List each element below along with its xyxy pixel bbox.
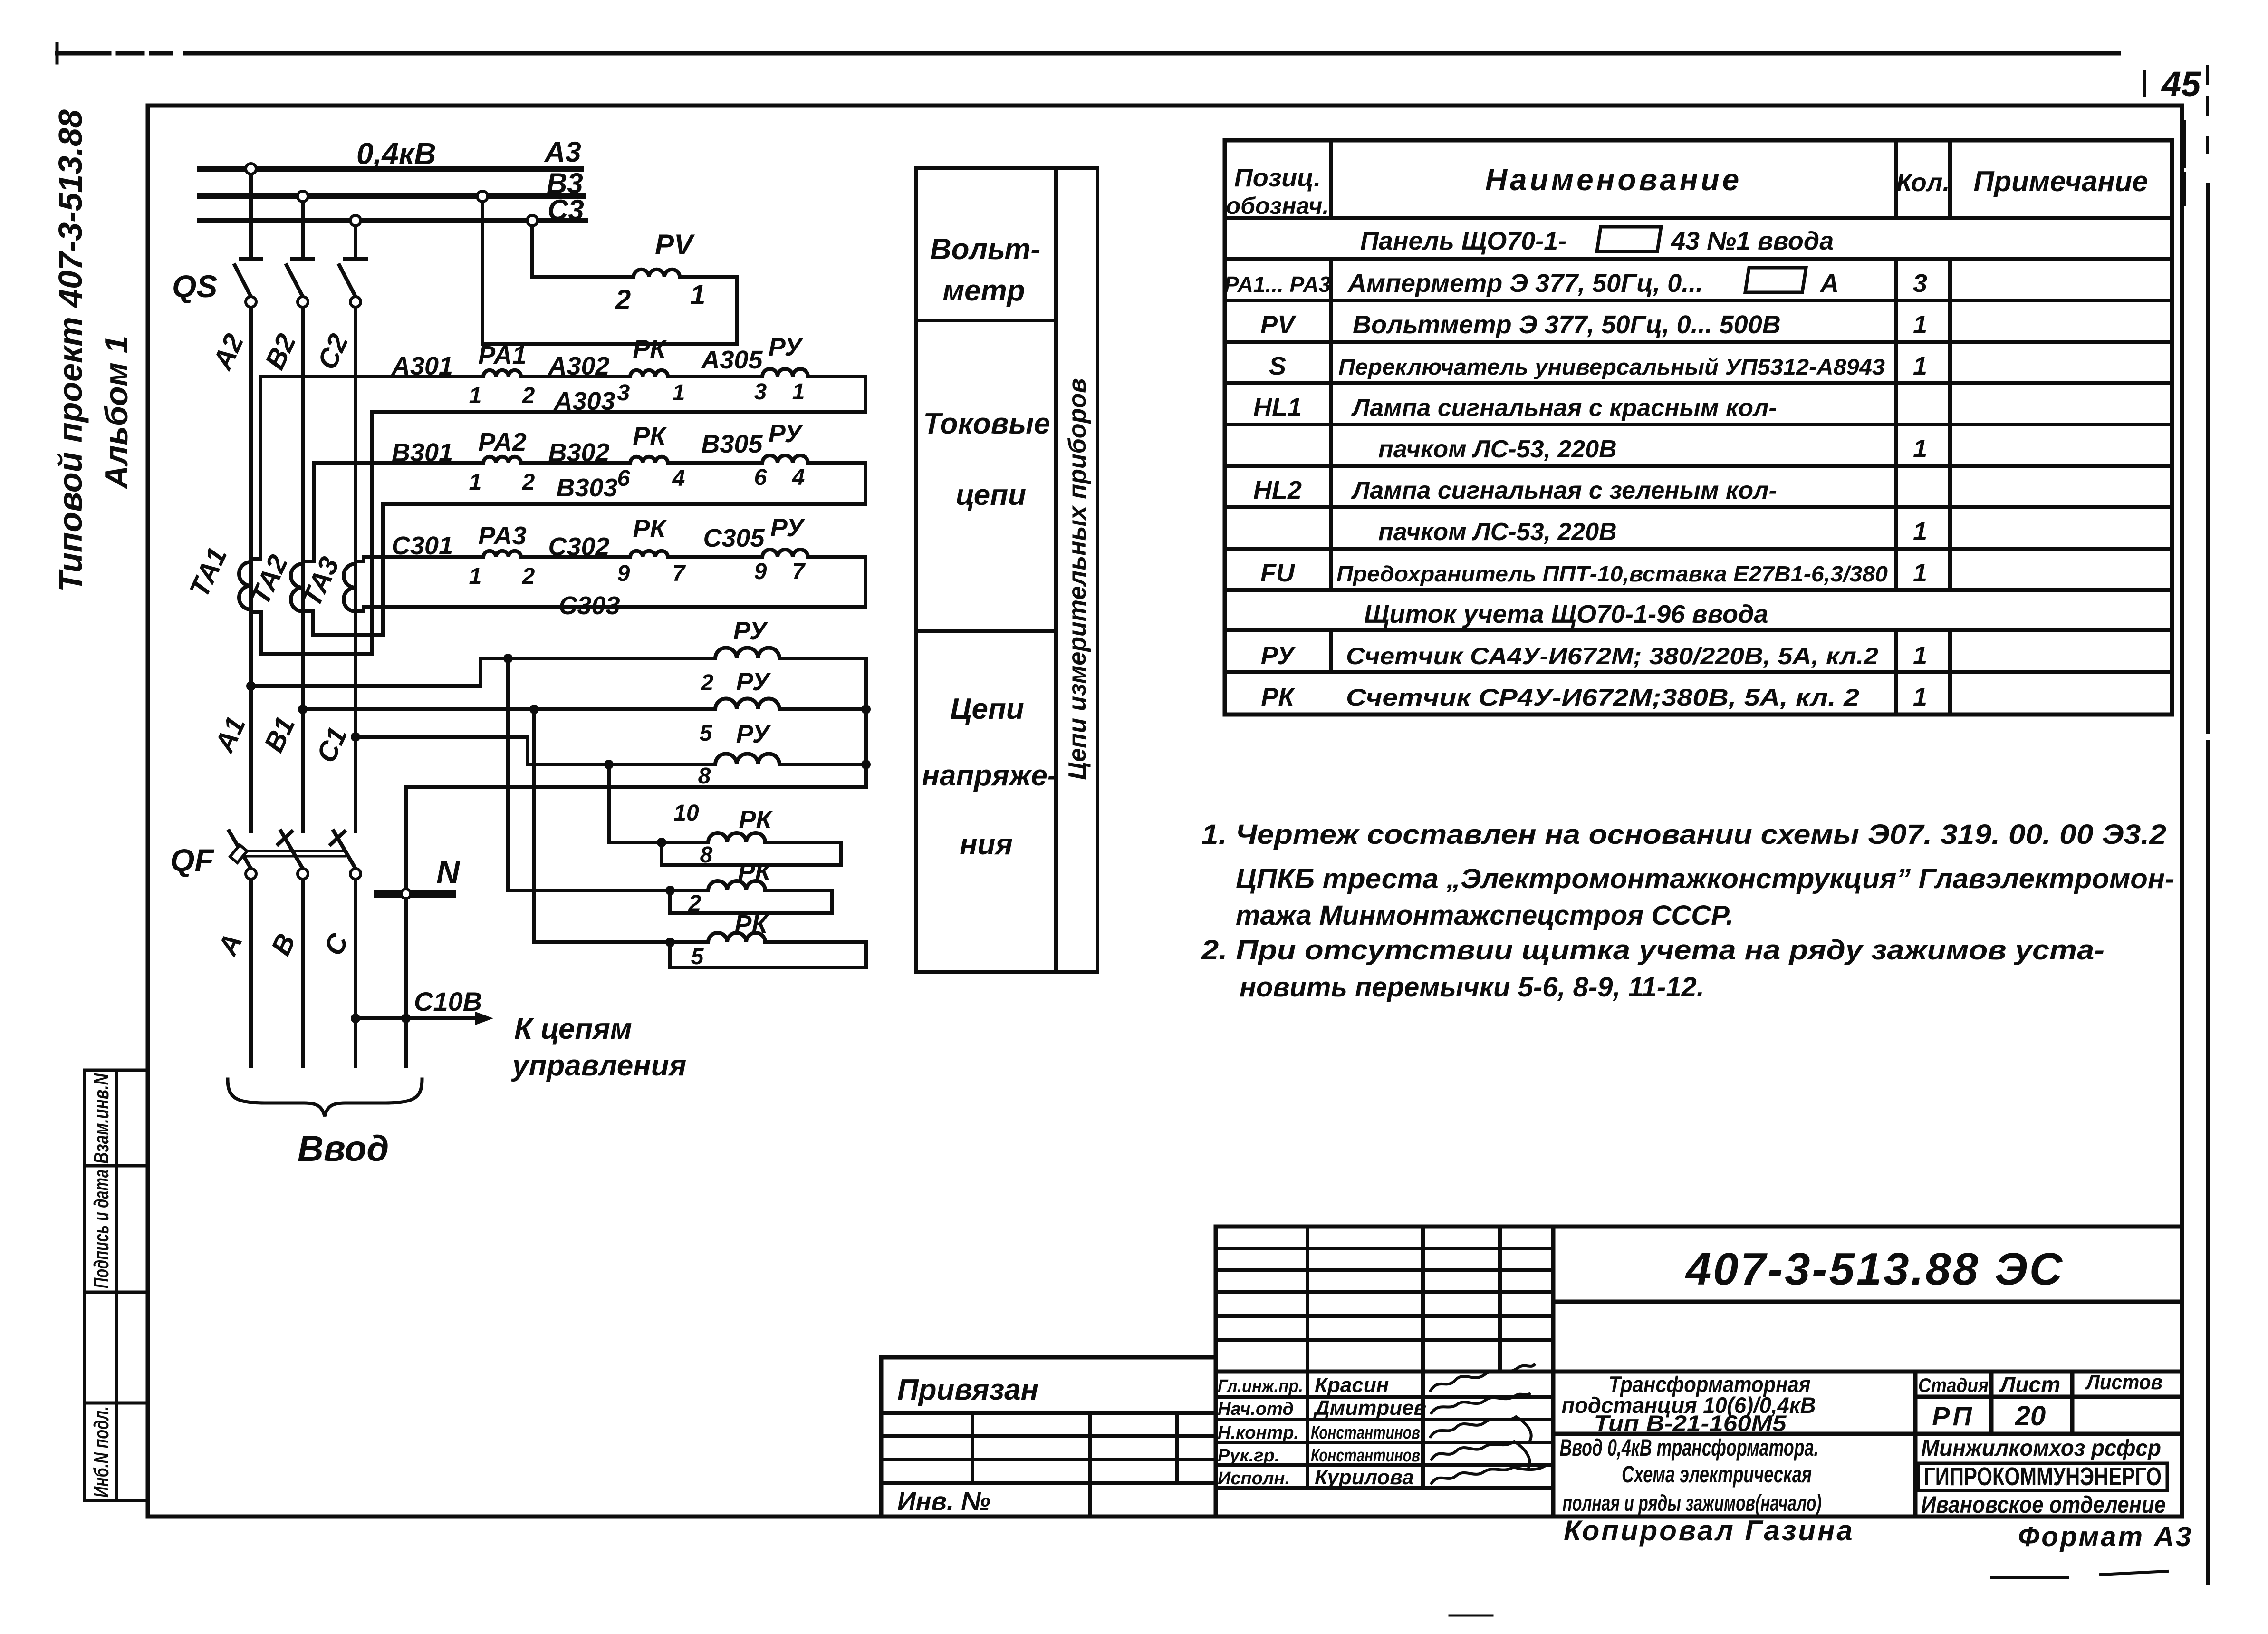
svg-text:пачком ЛС-53, 220В: пачком ЛС-53, 220В <box>1378 518 1617 546</box>
svg-text:1: 1 <box>469 470 482 495</box>
svg-text:2: 2 <box>522 383 535 408</box>
svg-text:3: 3 <box>754 379 767 405</box>
svg-text:Панель ЩО70-1-: Панель ЩО70-1- <box>1360 227 1566 255</box>
svg-text:напряже-: напряже- <box>922 759 1057 792</box>
svg-text:С303: С303 <box>558 591 620 620</box>
svg-text:Вольтметр Э 377, 50Гц, 0... 50: Вольтметр Э 377, 50Гц, 0... 500В <box>1353 310 1781 339</box>
svg-text:метр: метр <box>942 274 1025 307</box>
svg-text:Предохранитель ППТ-10,вставка: Предохранитель ППТ-10,вставка Е27В1-6,3/… <box>1336 561 1888 586</box>
svg-text:9: 9 <box>617 561 630 586</box>
svg-text:1: 1 <box>1913 352 1927 380</box>
svg-text:Константинов: Константинов <box>1311 1446 1420 1466</box>
svg-text:пачком ЛС-53, 220В: пачком ЛС-53, 220В <box>1378 435 1617 463</box>
svg-text:РА3: РА3 <box>478 522 527 550</box>
svg-text:8: 8 <box>698 764 711 789</box>
svg-text:Минжилкомхоз рсфср: Минжилкомхоз рсфср <box>1921 1436 2161 1461</box>
svg-text:В301: В301 <box>392 438 453 467</box>
svg-text:2. При отсутствии щитка уче: 2. При отсутствии щитка учета на ряду за… <box>1201 935 2105 966</box>
svg-text:Гл.инж.пр.: Гл.инж.пр. <box>1218 1376 1303 1396</box>
svg-text:А305: А305 <box>700 346 763 374</box>
svg-text:PV: PV <box>655 229 695 261</box>
svg-text:В303: В303 <box>556 474 617 502</box>
svg-text:РУ: РУ <box>1261 641 1296 670</box>
svg-text:Лампа сигнальная с зеленым: Лампа сигнальная с зеленым кол- <box>1351 477 1777 504</box>
svg-text:А303: А303 <box>553 387 615 416</box>
svg-text:QS: QS <box>172 269 217 304</box>
svg-text:Привязан: Привязан <box>897 1373 1038 1406</box>
svg-text:А301: А301 <box>391 352 453 380</box>
svg-text:С302: С302 <box>548 532 609 561</box>
svg-text:9: 9 <box>754 559 767 584</box>
svg-text:2: 2 <box>522 470 535 495</box>
svg-text:Красин: Красин <box>1315 1373 1389 1397</box>
svg-text:1. Чертеж составлен на осно: 1. Чертеж составлен на основании схемы Э… <box>1201 819 2166 850</box>
svg-text:5: 5 <box>700 721 713 746</box>
svg-text:1: 1 <box>469 564 482 589</box>
svg-text:РП: РП <box>1932 1401 1975 1431</box>
svg-text:ния: ния <box>960 828 1013 861</box>
svg-text:Примечание: Примечание <box>1973 165 2148 197</box>
svg-text:N: N <box>436 854 461 890</box>
svg-text:1: 1 <box>469 383 482 408</box>
svg-text:Амперметр Э 377, 50Гц, 0...: Амперметр Э 377, 50Гц, 0... <box>1347 269 1703 298</box>
svg-text:1: 1 <box>792 379 805 405</box>
svg-text:Ввод: Ввод <box>298 1129 389 1169</box>
svg-text:Н.контр.: Н.контр. <box>1218 1423 1299 1443</box>
svg-text:Курилова: Курилова <box>1315 1466 1414 1489</box>
svg-text:1: 1 <box>1913 641 1927 670</box>
svg-text:QF: QF <box>170 842 214 878</box>
svg-text:7: 7 <box>792 559 806 584</box>
svg-text:Копировал Газина: Копировал Газина <box>1564 1515 1855 1547</box>
svg-text:Инв. №: Инв. № <box>897 1487 990 1516</box>
svg-text:Формат А3: Формат А3 <box>2018 1521 2193 1552</box>
svg-text:Наименование: Наименование <box>1485 163 1742 197</box>
svg-text:HL2: HL2 <box>1253 476 1302 504</box>
svg-text:Кол.: Кол. <box>1896 168 1950 197</box>
svg-text:РК: РК <box>633 422 667 450</box>
svg-text:FU: FU <box>1260 559 1296 587</box>
svg-text:Счетчик СА4У-И672М; 380/220В,: Счетчик СА4У-И672М; 380/220В, 5А, кл.2 <box>1346 643 1878 669</box>
svg-text:Типовой проект 407-3-513.88: Типовой проект 407-3-513.88 <box>52 109 89 592</box>
svg-text:Нач.отд: Нач.отд <box>1218 1399 1294 1419</box>
svg-text:1: 1 <box>1913 683 1927 711</box>
svg-text:Счетчик СР4У-И672М;380В, 5А, к: Счетчик СР4У-И672М;380В, 5А, кл. 2 <box>1346 684 1859 711</box>
svg-text:Стадия: Стадия <box>1918 1374 1989 1396</box>
svg-text:1: 1 <box>673 380 685 406</box>
svg-text:7: 7 <box>673 561 686 586</box>
svg-text:РУ: РУ <box>733 617 769 645</box>
svg-text:тажа Минмонтажспецстроя СССР: тажа Минмонтажспецстроя СССР. <box>1236 900 1734 931</box>
svg-text:Инб.N подл.: Инб.N подл. <box>90 1406 113 1498</box>
svg-text:А3: А3 <box>544 136 581 168</box>
svg-text:Цепи измерительных приборов: Цепи измерительных приборов <box>1064 378 1091 780</box>
svg-text:HL1: HL1 <box>1253 393 1302 422</box>
svg-text:6: 6 <box>754 465 767 490</box>
svg-text:20: 20 <box>2015 1401 2046 1431</box>
svg-text:Тип В-21-160М5: Тип В-21-160М5 <box>1594 1411 1787 1436</box>
svg-text:РА1: РА1 <box>478 341 527 369</box>
svg-text:S: S <box>1269 352 1286 380</box>
svg-text:Вольт-: Вольт- <box>930 233 1040 266</box>
svg-text:Константинов: Константинов <box>1311 1423 1420 1443</box>
svg-text:РА2: РА2 <box>478 428 527 456</box>
svg-text:К цепям: К цепям <box>514 1013 632 1045</box>
svg-text:РК: РК <box>734 910 769 938</box>
svg-text:В302: В302 <box>548 438 609 467</box>
svg-text:РУ: РУ <box>769 419 804 448</box>
svg-text:С10В: С10В <box>414 986 482 1016</box>
svg-text:0,4кВ: 0,4кВ <box>356 136 436 171</box>
svg-text:407-3-513.88 ЭС: 407-3-513.88 ЭС <box>1685 1244 2064 1295</box>
svg-text:PV: PV <box>1260 310 1297 339</box>
svg-text:1: 1 <box>1913 435 1927 463</box>
svg-text:ЦПКБ треста „Электромонтажкон: ЦПКБ треста „Электромонтажконструкция” Г… <box>1236 863 2174 894</box>
svg-text:8: 8 <box>700 842 713 868</box>
svg-text:2: 2 <box>701 670 714 696</box>
svg-text:А302: А302 <box>547 352 609 380</box>
svg-text:Лист: Лист <box>1999 1372 2060 1397</box>
svg-text:5: 5 <box>691 944 704 969</box>
svg-text:РУ: РУ <box>736 720 771 748</box>
svg-text:новить перемычки 5-6, 8-9, 11: новить перемычки 5-6, 8-9, 11-12. <box>1240 972 1704 1003</box>
svg-text:1: 1 <box>1913 559 1927 587</box>
svg-text:С301: С301 <box>392 532 453 560</box>
svg-text:С3: С3 <box>548 194 584 226</box>
svg-text:Лампа сигнальная с красным: Лампа сигнальная с красным кол- <box>1351 394 1777 422</box>
svg-text:Переключатель универсальный УП: Переключатель универсальный УП5312-А8943 <box>1338 354 1885 379</box>
svg-text:1: 1 <box>1913 517 1927 546</box>
svg-text:РК: РК <box>1261 683 1296 711</box>
svg-text:полная и ряды зажимов(начало): полная и ряды зажимов(начало) <box>1563 1491 1822 1516</box>
svg-text:Токовые: Токовые <box>923 407 1050 440</box>
svg-text:Взам.инв.N: Взам.инв.N <box>90 1073 113 1164</box>
svg-text:10: 10 <box>673 801 699 826</box>
svg-text:В305: В305 <box>701 430 763 458</box>
svg-text:2: 2 <box>522 564 535 589</box>
svg-text:Подпись и дата: Подпись и дата <box>90 1170 113 1288</box>
svg-text:Ввод 0,4кВ трансформатора.: Ввод 0,4кВ трансформатора. <box>1560 1434 1819 1461</box>
svg-text:РК: РК <box>633 514 667 543</box>
svg-text:45: 45 <box>2161 64 2201 104</box>
svg-text:Листов: Листов <box>2085 1371 2162 1394</box>
svg-text:С305: С305 <box>703 524 765 552</box>
svg-text:Ивановское отделение: Ивановское отделение <box>1921 1491 2166 1518</box>
svg-text:6: 6 <box>617 466 630 491</box>
svg-text:2: 2 <box>688 891 702 916</box>
svg-text:цепи: цепи <box>956 479 1026 512</box>
svg-text:Позиц.: Позиц. <box>1234 164 1321 192</box>
svg-text:обознач.: обознач. <box>1226 193 1329 219</box>
svg-text:4: 4 <box>792 465 805 490</box>
svg-text:РУ: РУ <box>769 333 804 361</box>
svg-text:4: 4 <box>672 466 685 491</box>
svg-text:2: 2 <box>615 284 631 315</box>
svg-text:Схема электрическая: Схема электрическая <box>1622 1461 1812 1488</box>
svg-text:Щиток учета ЩО70-1-96 ввода: Щиток учета ЩО70-1-96 ввода <box>1364 600 1768 628</box>
svg-text:РУ: РУ <box>736 667 771 696</box>
svg-text:1: 1 <box>1913 310 1927 339</box>
svg-text:РК: РК <box>633 335 667 363</box>
svg-text:1: 1 <box>690 280 705 310</box>
svg-text:РУ: РУ <box>770 513 806 542</box>
svg-text:43 №1 ввода: 43 №1 ввода <box>1671 227 1834 255</box>
svg-text:3: 3 <box>1913 269 1927 298</box>
svg-text:РА1... РА3: РА1... РА3 <box>1224 272 1331 297</box>
svg-text:РК: РК <box>739 805 773 834</box>
svg-text:РК: РК <box>738 858 772 886</box>
svg-text:А: А <box>1819 269 1839 298</box>
svg-text:Цепи: Цепи <box>950 693 1024 725</box>
svg-text:Исполн.: Исполн. <box>1218 1469 1290 1489</box>
svg-text:управления: управления <box>511 1049 686 1082</box>
svg-text:3: 3 <box>617 380 630 406</box>
svg-text:ГИПРОКОММУНЭНЕРГО: ГИПРОКОММУНЭНЕРГО <box>1924 1462 2162 1491</box>
svg-text:Альбом 1: Альбом 1 <box>98 336 135 490</box>
svg-text:Рук.гр.: Рук.гр. <box>1218 1446 1279 1466</box>
svg-text:Дмитриев: Дмитриев <box>1313 1396 1426 1420</box>
